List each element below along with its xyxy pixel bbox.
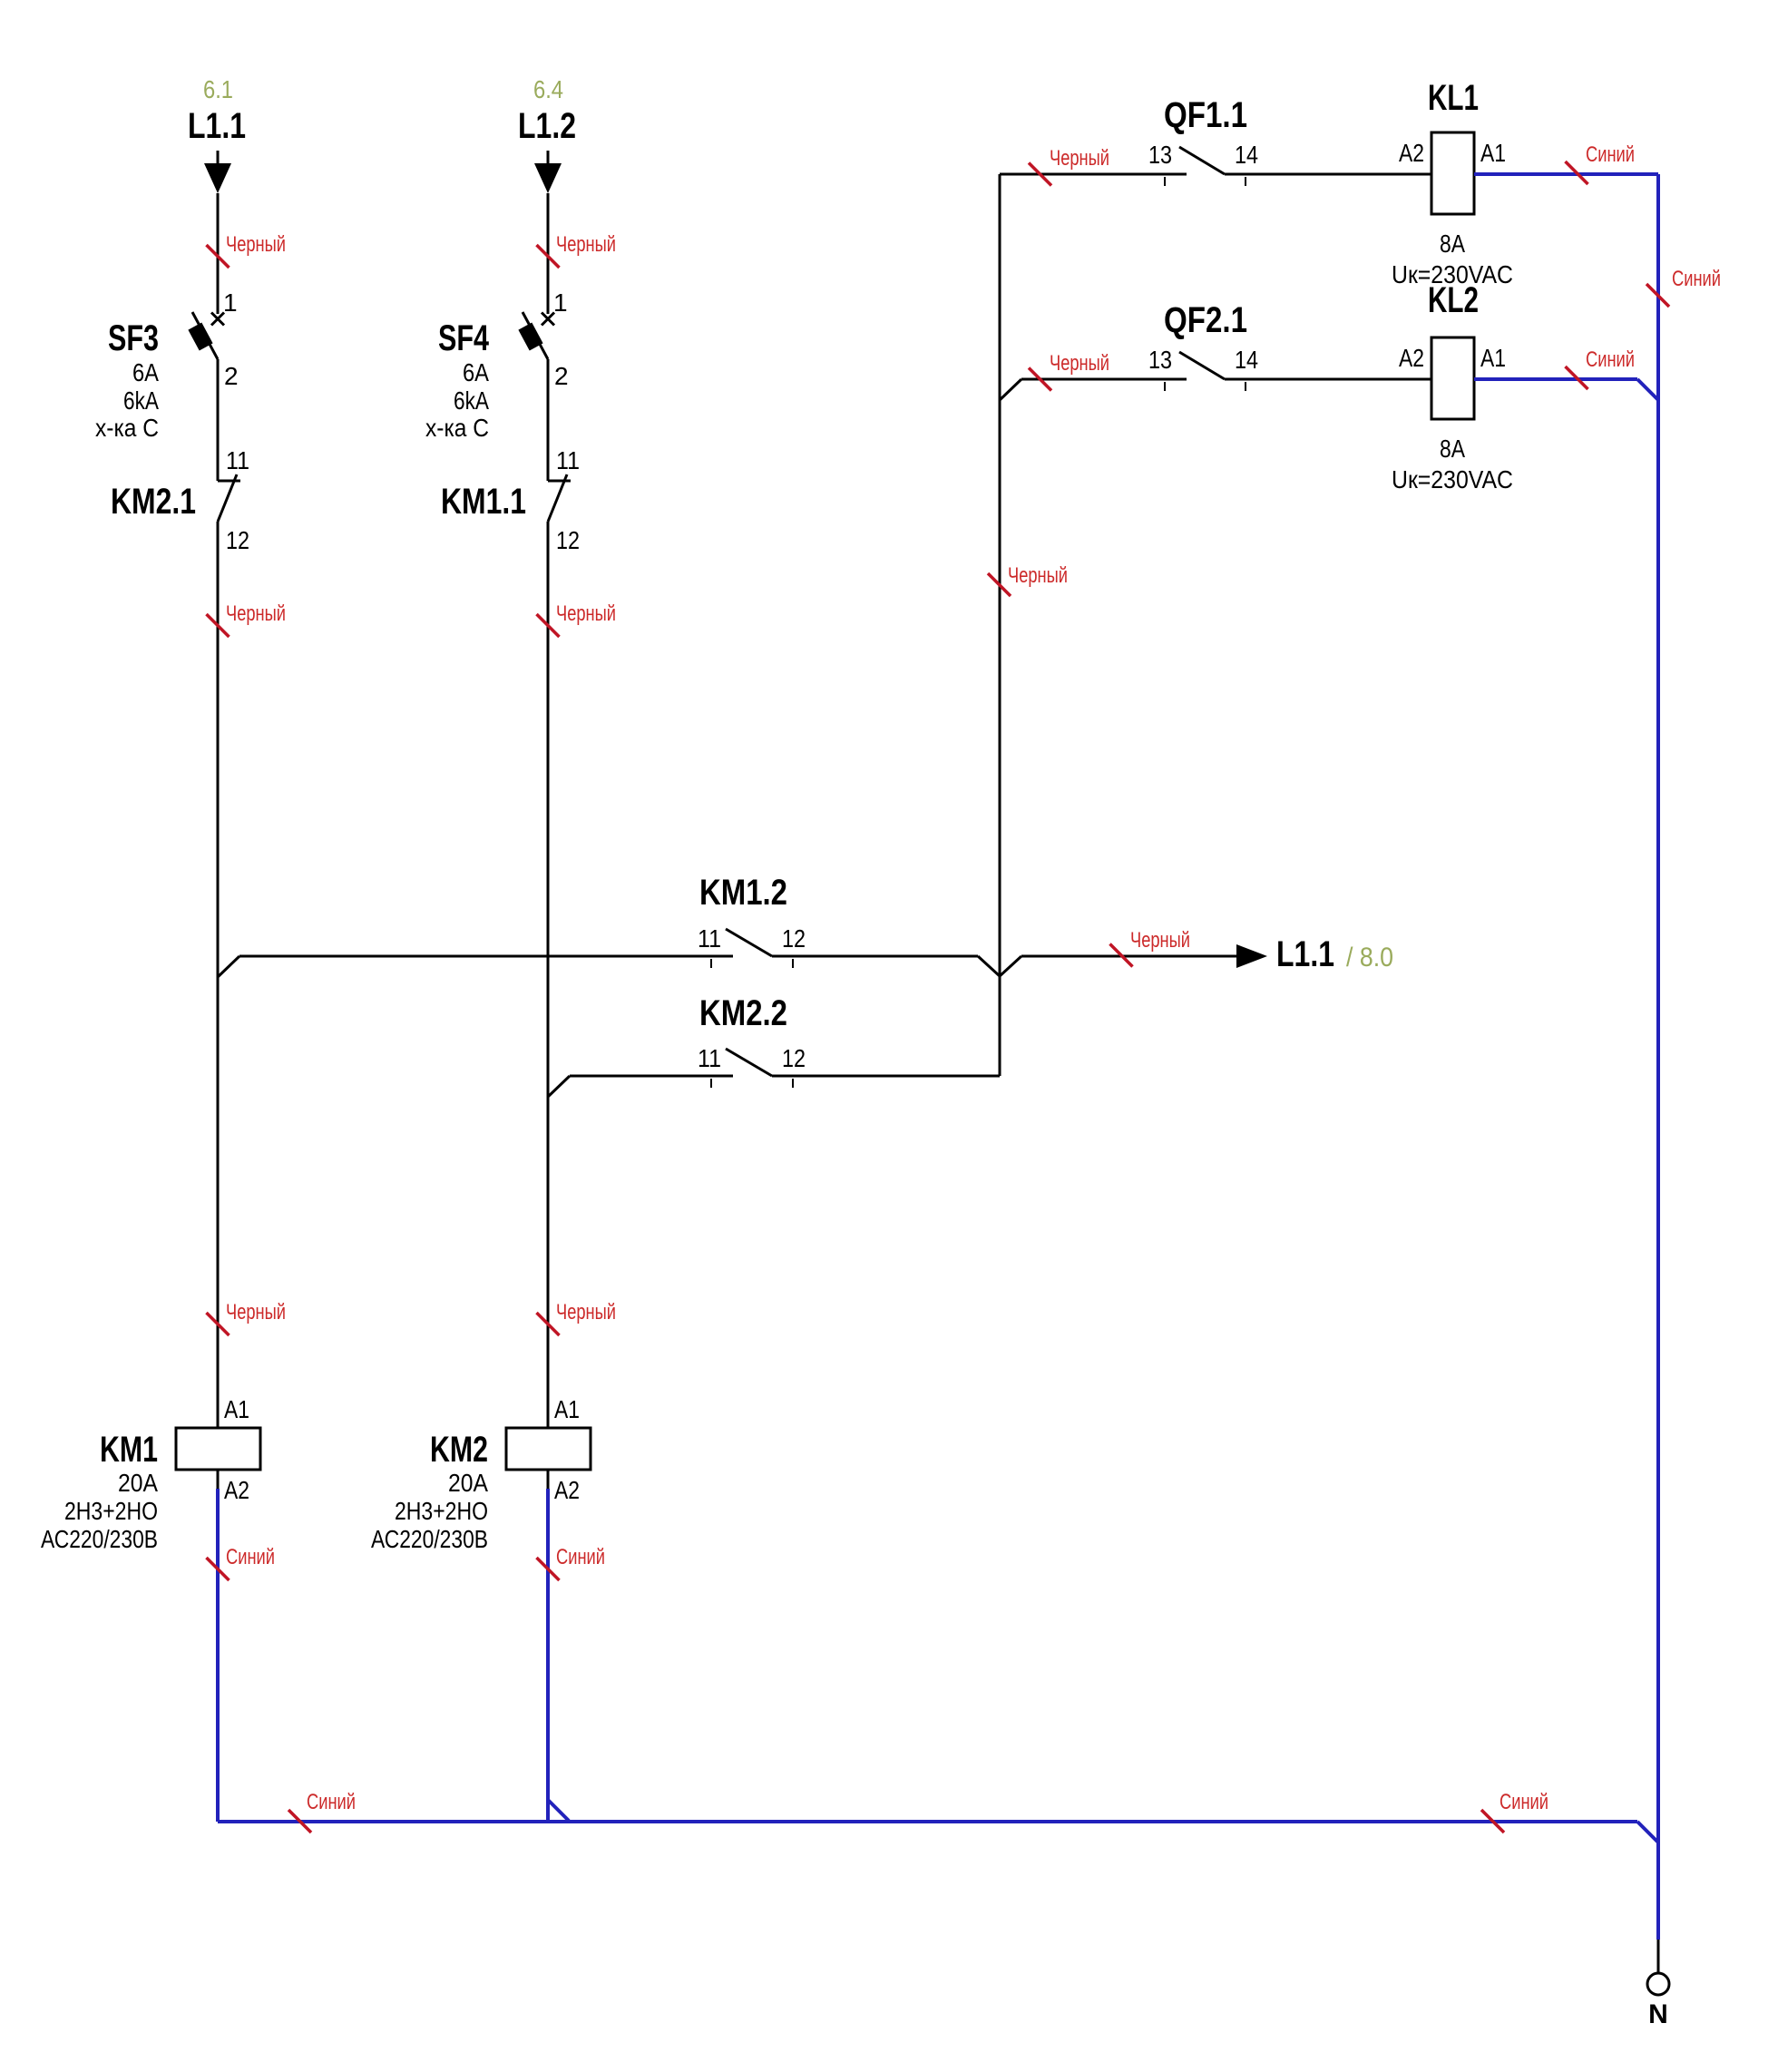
wire color label Черный [1029,146,1109,186]
wire (blue neutral drop) [546,1489,550,1822]
wire KL2 A1 to neutral bus (blue) [1474,379,1658,400]
value АС220/230В [371,1525,488,1553]
svg-text:Черный: Черный [1008,563,1068,588]
svg-text:A1: A1 [224,1395,249,1423]
svg-text:11: 11 [556,446,580,474]
svg-text:Черный: Черный [556,232,616,257]
wire KM2.2 to control bus [772,1075,1000,1078]
svg-text:Синий: Синий [1672,267,1721,291]
value 8A [1440,230,1465,258]
pin A2 of KL2 [1399,344,1424,372]
label QF1.1 [1164,95,1247,135]
wire color label Черный [207,601,287,637]
svg-text:13: 13 [1148,346,1172,374]
svg-text:L1.1: L1.1 [188,106,246,146]
svg-text:Черный: Черный [226,601,286,626]
svg-text:11: 11 [226,446,249,474]
pin A1 of KL2 [1480,344,1506,372]
wire color label Черный [537,1300,617,1335]
contactor coil KM2 [506,1428,591,1470]
net cross-reference 6.4 (green) [533,75,563,103]
svg-text:2Н3+2НО: 2Н3+2НО [395,1497,488,1525]
svg-text:QF1.1: QF1.1 [1164,95,1247,135]
pin 2 of SF3 [224,362,239,390]
label KM1.1 [441,482,526,522]
pin 12 of KM2.2 [782,1044,806,1072]
svg-text:SF3: SF3 [108,318,159,358]
pin 1 of SF3 [223,288,238,317]
pin 1 of SF4 [553,288,568,317]
net cross-reference / 8.0 (green) [1346,943,1393,972]
wire to L1.1 outgoing [1021,955,1236,958]
net cross-reference 6.1 (green) [203,75,233,103]
svg-text:11: 11 [698,1044,721,1072]
pin 13 of QF1.1 [1148,141,1172,169]
svg-text:14: 14 [1235,346,1258,374]
wire color label Черный [988,563,1068,596]
value 6kA [454,386,489,415]
value 6A [463,358,489,386]
label KM2 [430,1430,488,1470]
svg-text:20A: 20A [448,1469,488,1497]
svg-text:Синий: Синий [307,1790,356,1814]
svg-text:Черный: Черный [556,1300,616,1324]
wire color label Синий [537,1545,606,1580]
label KM1 [100,1430,158,1470]
wire [547,522,550,1428]
pin 11 of KM1.1 [556,446,580,474]
svg-text:6A: 6A [132,358,159,386]
svg-text:12: 12 [556,526,580,554]
value 2Н3+2НО [64,1497,158,1525]
wire color label Синий [1481,1790,1548,1833]
svg-text:A2: A2 [1399,139,1424,167]
svg-text:12: 12 [782,924,806,953]
relay coil KL1 [1431,132,1474,214]
wire [217,193,220,314]
wire color label Черный [1110,928,1191,967]
svg-text:KM2.1: KM2.1 [111,482,196,522]
label SF4 [438,318,490,358]
svg-text:N: N [1648,1999,1668,2029]
value х-ка С [425,414,489,442]
value 2Н3+2НО [395,1497,488,1525]
svg-text:Uк=230VAC: Uк=230VAC [1392,465,1513,494]
pin 14 of QF2.1 [1235,346,1258,374]
pin 14 of QF1.1 [1235,141,1258,169]
svg-text:13: 13 [1148,141,1172,169]
pin A1 of KL1 [1480,139,1506,167]
pin 11 of KM2.2 [698,1044,721,1072]
svg-text:Синий: Синий [1586,142,1635,167]
wire color label Синий [207,1545,276,1580]
svg-text:12: 12 [782,1044,806,1072]
wire [547,193,550,314]
wire QF1.1 left lead [1000,173,1187,176]
svg-text:12: 12 [226,526,249,554]
pin A1 of KM1 [224,1395,249,1423]
svg-text:KM1.1: KM1.1 [441,482,526,522]
wire color label Синий [1566,142,1636,184]
contact KM1.2 (NO) [711,929,793,968]
svg-text:KM1.2: KM1.2 [699,873,787,913]
node L1.1 outgoing arrow [1236,934,1334,974]
pin 13 of QF2.1 [1148,346,1172,374]
pin 12 of KM1.2 [782,924,806,953]
svg-text:QF2.1: QF2.1 [1164,300,1247,340]
svg-text:6kA: 6kA [454,386,489,415]
pin A1 of KM2 [554,1395,580,1423]
circuit breaker SF4 [518,312,554,359]
circuit breaker SF3 [188,312,224,359]
value 8A [1440,435,1465,463]
svg-text:A2: A2 [1399,344,1424,372]
value 6A [132,358,159,386]
label KM2.2 [699,993,787,1033]
wire [217,522,220,1428]
pin 12 of KM1.1 [556,526,580,554]
wire QF2.1 right lead [1225,378,1431,381]
label KM1.2 [699,873,787,913]
wire QF2.1 left lead [1021,378,1187,381]
neutral bus N (blue horizontal) [218,1822,1658,1842]
svg-text:Черный: Черный [226,1300,286,1324]
svg-text:6A: 6A [463,358,489,386]
svg-text:Черный: Черный [1130,928,1190,953]
label KL2 [1428,280,1479,320]
wire color label Синий [288,1790,356,1833]
wire color label Синий [1566,347,1636,389]
feed arrow L1.1 [204,151,231,193]
svg-text:KL1: KL1 [1428,78,1479,118]
junction col2 to neutral bus [548,1800,569,1821]
wire color label Черный [1029,351,1109,391]
svg-text:KM2.2: KM2.2 [699,993,787,1033]
wire KM2.2 left lead [570,1075,733,1078]
node L1.1 (incoming feed label) [188,106,246,146]
relay coil KL2 [1431,337,1474,419]
svg-text:2Н3+2НО: 2Н3+2НО [64,1497,158,1525]
pin A2 of KM1 [224,1476,249,1504]
junction control bus to QF2.1 [1000,379,1021,400]
svg-text:KM1: KM1 [100,1430,158,1470]
value АС220/230В [41,1525,158,1553]
svg-text:2: 2 [554,362,569,390]
feed arrow L1.2 [534,151,562,193]
svg-text:Синий: Синий [556,1545,605,1569]
wire color label Черный [207,1300,287,1335]
svg-text:6.4: 6.4 [533,75,563,103]
svg-text:6.1: 6.1 [203,75,233,103]
svg-text:A1: A1 [1480,139,1506,167]
pin A2 of KL1 [1399,139,1424,167]
svg-text:KM2: KM2 [430,1430,488,1470]
contact KM2.2 (NO) [711,1049,793,1088]
svg-text:L1.1: L1.1 [1276,934,1334,974]
label KM2.1 [111,482,196,522]
wire KL1 A1 to neutral bus (blue) [1474,172,1658,176]
svg-text:20A: 20A [118,1469,158,1497]
wire [547,359,550,481]
contact QF1.1 (NO) [1165,147,1246,186]
svg-text:АС220/230В: АС220/230В [371,1525,488,1553]
wire color label Синий [1646,267,1721,307]
svg-text:1: 1 [553,288,568,317]
value х-ка С [95,414,159,442]
terminal N [1647,1940,1669,2029]
node L1.2 (incoming feed label) [518,106,576,146]
neutral bus right riser (blue vertical) [1656,174,1660,1940]
svg-text:KL2: KL2 [1428,280,1479,320]
svg-text:х-ка С: х-ка С [425,414,489,442]
svg-text:1: 1 [223,288,238,317]
wire KM1.2 left lead [239,955,733,958]
svg-text:Черный: Черный [226,232,286,257]
value 20A [448,1469,488,1497]
svg-text:11: 11 [698,924,721,953]
wire (blue neutral drop) [216,1489,220,1822]
wire [217,359,220,481]
svg-text:АС220/230В: АС220/230В [41,1525,158,1553]
NC contact KM1.1 [548,474,571,522]
wire color label Черный [207,232,287,268]
NC contact KM2.1 [218,474,240,522]
svg-text:Синий: Синий [1500,1790,1548,1814]
wire color label Черный [537,232,617,268]
value Uк=230VAC [1392,465,1513,494]
wire KM1.2 to control bus [772,956,1021,976]
wire color label Черный [537,601,617,637]
wire QF1.1 right lead [1225,173,1431,176]
svg-text:A2: A2 [554,1476,580,1504]
wire [217,1470,220,1489]
label KL1 [1428,78,1479,118]
svg-text:A1: A1 [1480,344,1506,372]
svg-text:L1.2: L1.2 [518,106,576,146]
pin 12 of KM2.1 [226,526,249,554]
svg-text:A2: A2 [224,1476,249,1504]
svg-text:Синий: Синий [226,1545,275,1569]
svg-text:Черный: Черный [556,601,616,626]
pin 11 of KM2.1 [226,446,249,474]
svg-text:Черный: Черный [1050,146,1109,171]
value Uк=230VAC [1392,260,1513,288]
contact QF2.1 (NO) [1165,352,1246,391]
svg-text:6kA: 6kA [123,386,159,415]
svg-text:8A: 8A [1440,230,1465,258]
pin 11 of KM1.2 [698,924,721,953]
svg-text:Синий: Синий [1586,347,1635,372]
contactor coil KM1 [176,1428,260,1470]
label SF3 [108,318,159,358]
svg-text:2: 2 [224,362,239,390]
pin 2 of SF4 [554,362,569,390]
svg-text:A1: A1 [554,1395,580,1423]
svg-text:SF4: SF4 [438,318,490,358]
wire [547,1470,550,1489]
junction col1 to KM1.2 row [218,956,239,977]
svg-text:Черный: Черный [1050,351,1109,376]
value 6kA [123,386,159,415]
label QF2.1 [1164,300,1247,340]
control bus (black vertical) [999,174,1001,1076]
junction col2 to KM2.2 row [548,1076,570,1097]
svg-text:14: 14 [1235,141,1258,169]
svg-text:8A: 8A [1440,435,1465,463]
value 20A [118,1469,158,1497]
pin A2 of KM2 [554,1476,580,1504]
svg-text:х-ка С: х-ка С [95,414,159,442]
svg-text:/ 8.0: / 8.0 [1346,943,1393,972]
